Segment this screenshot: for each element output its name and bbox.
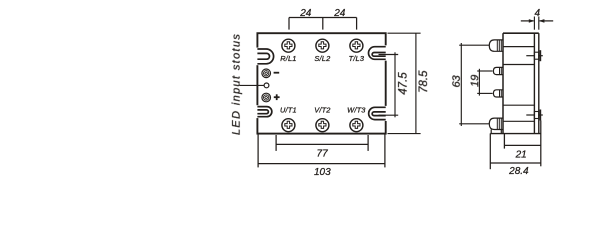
dimension 24-24 top <box>289 18 357 30</box>
bottom cap base block <box>491 130 501 134</box>
dimension 63 (side left) <box>459 43 489 126</box>
leader line from LED text to LED <box>240 84 265 86</box>
side body left edge <box>502 33 504 133</box>
small terminal cap 3 (side) <box>493 90 503 97</box>
LED indicator <box>264 83 269 88</box>
dimension 21 right extension <box>540 121 542 167</box>
svg-text:U/T1: U/T1 <box>280 106 297 115</box>
svg-text:W/T3: W/T3 <box>347 106 366 115</box>
mounting slot bottom-left <box>257 107 271 117</box>
top big terminal cap (side) <box>489 40 503 51</box>
svg-text:LED input stotus: LED input stotus <box>231 33 243 135</box>
svg-text:V/T2: V/T2 <box>314 106 330 115</box>
svg-text:T/L3: T/L3 <box>349 54 365 63</box>
screw terminal R/L1 <box>282 39 295 52</box>
input terminal plus <box>262 93 271 102</box>
side body bottom edge <box>490 133 541 135</box>
svg-text:77: 77 <box>317 148 329 159</box>
dimension 47.5 right <box>379 52 399 117</box>
upper mounting screw (side) <box>526 50 543 61</box>
svg-text:21: 21 <box>515 149 527 160</box>
mounting slot bottom-right <box>369 107 386 119</box>
screw terminal U/T1 <box>282 119 295 132</box>
small terminal cap 2 (side) <box>493 67 503 74</box>
screw terminal T/L3 <box>350 39 363 52</box>
svg-text:S/L2: S/L2 <box>314 54 330 63</box>
svg-text:103: 103 <box>314 167 331 178</box>
minus sign <box>274 72 280 74</box>
dimension 28.4 bottom <box>490 133 541 169</box>
svg-text:78.5: 78.5 <box>418 70 430 93</box>
svg-text:R/L1: R/L1 <box>280 54 296 63</box>
upper terminal recess box <box>503 47 534 65</box>
dimension 78.5 right <box>388 33 421 133</box>
dimension 4 (baseplate thickness) <box>521 17 553 30</box>
svg-text:24: 24 <box>299 8 312 19</box>
svg-text:63: 63 <box>451 74 463 87</box>
bottom big terminal cap (side) <box>489 118 503 129</box>
lower terminal recess box <box>503 105 534 121</box>
baseplate <box>534 33 538 133</box>
svg-text:19: 19 <box>469 75 481 87</box>
side body top edge <box>503 32 539 34</box>
screw terminal W/T3 <box>350 119 363 132</box>
plus sign <box>274 94 280 100</box>
SSR body outline (front view) <box>257 33 385 133</box>
bottom foot (its bottom edge doubles as dim line 21) <box>504 134 541 149</box>
mounting slot top-left <box>257 49 273 64</box>
svg-text:24: 24 <box>333 8 346 19</box>
edge gaps for mounting slots <box>256 45 388 121</box>
dimension 77 bottom <box>276 135 368 151</box>
svg-text:28.4: 28.4 <box>508 166 529 177</box>
screw terminal V/T2 <box>316 119 329 132</box>
svg-text:4: 4 <box>535 8 541 19</box>
dimension 19 (side left) <box>477 69 492 96</box>
screw terminal S/L2 <box>316 39 329 52</box>
mounting slot top-right <box>369 47 386 60</box>
input terminal minus <box>262 69 271 78</box>
lower mounting screw (side) <box>526 110 543 121</box>
dimension 103 bottom <box>258 134 385 167</box>
svg-text:47.5: 47.5 <box>398 72 410 95</box>
